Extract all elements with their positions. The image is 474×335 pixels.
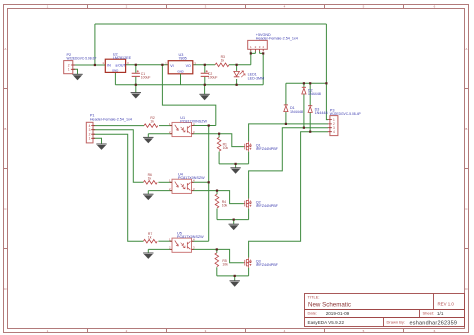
resistor R2 1k (144, 116, 158, 128)
wire LED1 column (236, 65, 238, 85)
regulator U3 7805 (165, 53, 196, 74)
svg-text:100uF: 100uF (141, 75, 151, 79)
resistor R1 10k (217, 137, 228, 151)
svg-text:PC817X0NSZW: PC817X0NSZW (177, 235, 204, 239)
svg-text:1k: 1k (148, 177, 152, 181)
node GND junction at LED1 bottom (236, 84, 238, 86)
wire diode cathode rail (286, 82, 327, 84)
wire ch2 source return and ground (217, 209, 249, 225)
wire D2 stems (303, 83, 305, 127)
svg-text:LM7812EE: LM7812EE (113, 56, 132, 60)
node junction U1 pin4 to collector rail (208, 124, 210, 126)
svg-text:1N4448: 1N4448 (290, 110, 303, 114)
ground symbols (72, 74, 241, 286)
svg-text:Drawn By:: Drawn By: (387, 319, 405, 324)
node +12V junction at C1 top (135, 64, 137, 66)
wire top +12V loop across sheet (95, 23, 327, 25)
wire +5V riser to header (251, 51, 256, 65)
svg-text:1: 1 (102, 61, 104, 65)
wire +12V tap to opto collector rail (162, 65, 215, 126)
svg-text:Header-Female-2.54_1x4: Header-Female-2.54_1x4 (90, 117, 132, 121)
svg-text:1N4448: 1N4448 (315, 111, 328, 115)
wire U1 pin2 to ground (148, 134, 172, 138)
svg-text:Date:: Date: (308, 311, 318, 316)
wire U4 pin3 to Q2 gate (192, 191, 244, 204)
wire Q2 drain row to P3 pin3 (249, 128, 328, 199)
node junction U4 pin3 / R4 (216, 190, 218, 192)
wire U5 pin3 to Q3 gate (192, 249, 244, 262)
wire C2 ground stem (204, 85, 206, 95)
svg-text:B: B (4, 127, 6, 131)
connector P1 Header-Female-2.54_1x4 (86, 114, 132, 143)
svg-text:WJ2EDGVC-5.08-2P: WJ2EDGVC-5.08-2P (67, 56, 97, 60)
ground (ch1 return) (230, 168, 240, 174)
svg-text:10k: 10k (222, 262, 228, 266)
node junction D1 anode / Q1 drain row (285, 123, 287, 125)
ground (P2) (72, 74, 82, 80)
wire U4 pin2 to ground (148, 191, 172, 195)
node junction ch2 source return ground (233, 219, 235, 221)
wire P2 pin1 to ground (73, 69, 78, 74)
wire ch1 source return and ground (219, 152, 249, 168)
wire U5 pin2 to ground (148, 249, 172, 253)
svg-text:TITLE:: TITLE: (308, 295, 320, 300)
header +5V/GND Header-Female-2.54_1x4 (248, 33, 298, 52)
resistor R3 1k (215, 55, 229, 67)
svg-text:3: 3 (89, 128, 91, 132)
node junction U4 pin4 to collector rail (208, 181, 210, 183)
resistor R7 1k (143, 232, 157, 243)
svg-text:D: D (465, 287, 468, 291)
ground (C2) (199, 94, 209, 100)
optocoupler U5 PC817X0NSZW (169, 232, 204, 253)
wire +12V riser to top loop (94, 24, 96, 65)
wire P1 pin1 to ground (93, 138, 102, 144)
node +5V junction at C2 top (204, 64, 206, 66)
svg-text:WJ2EDGVC-5.08-4P: WJ2EDGVC-5.08-4P (330, 112, 362, 116)
resistor R6 1k (143, 173, 157, 184)
node GND junction at C2 bottom (204, 84, 206, 86)
ground (C1) (131, 93, 141, 99)
svg-text:1k: 1k (148, 235, 152, 239)
node junction U1 pin3 / R1 (218, 133, 220, 135)
wire D3 stems (309, 83, 311, 131)
ground (ch3 return) (230, 281, 240, 287)
node junction D3 cathode / VIN rail (309, 82, 311, 84)
transistor Q2 IRFZ44NPBF (244, 199, 279, 209)
svg-text:100uF: 100uF (208, 75, 218, 79)
ground (U1 cathode) (143, 137, 153, 143)
node +5V junction at LED1 top (236, 64, 238, 66)
wire R3 to +5V corner (229, 64, 251, 66)
svg-text:1k: 1k (221, 58, 225, 62)
transistor Q1 IRFZ44NPBF (244, 142, 279, 152)
svg-text:eshandhar262359: eshandhar262359 (410, 320, 458, 326)
node junction D3 anode / Q3 drain row (309, 131, 311, 133)
node GND junction at C1 bottom (135, 84, 137, 86)
connector P3 WJ2EDGVC-5.08-4P (328, 109, 362, 136)
svg-text:GND: GND (112, 68, 118, 72)
wire R4 bottom to return (216, 191, 218, 220)
svg-text:C: C (4, 207, 7, 211)
svg-text:1N4448: 1N4448 (308, 92, 321, 96)
optocoupler U1 PC817X0NSZW (169, 116, 207, 137)
connector P2 WJ2EDGVC-5.08-2P (64, 53, 97, 74)
svg-text:GND: GND (177, 70, 183, 74)
wire ground bus (115, 84, 263, 86)
svg-text:B: B (465, 127, 467, 131)
ground (P1 pin1) (96, 144, 106, 150)
resistor R5 10k (215, 253, 228, 267)
svg-text:1: 1 (89, 137, 91, 141)
node junction ch3 source return ground (234, 275, 236, 277)
svg-text:PC817X0NSZW: PC817X0NSZW (180, 119, 207, 123)
svg-text:VI: VI (170, 64, 173, 68)
svg-text:IRFZ44NPBF: IRFZ44NPBF (256, 147, 279, 151)
regulator U2 LM7812 (102, 53, 131, 73)
svg-text:10k: 10k (223, 146, 229, 150)
wire R2 to U1 pin1 (159, 125, 172, 127)
node junction D2 cathode / VIN rail (303, 82, 305, 84)
wire C1 ground stem (135, 85, 137, 93)
node +5V junction at header pins 1-2 (250, 52, 252, 54)
wire U2 OUT to U3 VI (+12V node) (126, 64, 169, 66)
wire U3 VO to R3 (193, 64, 215, 66)
wire U2 GND drop (114, 72, 116, 84)
svg-text:A: A (465, 47, 467, 51)
svg-text:IN: IN (107, 64, 111, 68)
wire collector rail down to U4/U5 pin4 (208, 126, 210, 242)
node VIN junction at P2/U2 input (94, 64, 96, 66)
svg-text:PC817X0NSZW: PC817X0NSZW (178, 176, 205, 180)
wire R5 bottom to return (216, 249, 218, 276)
svg-text:New Schematic: New Schematic (308, 301, 351, 308)
wire U1 pin4 to +12V feed (192, 125, 216, 127)
svg-text:C: C (465, 207, 468, 211)
svg-text:4: 4 (333, 130, 335, 134)
wire U1 pin3 to Q1 gate (192, 134, 244, 147)
diode D3 1N4448 (308, 106, 327, 115)
diode D1 1N4448 (284, 105, 303, 114)
transistor Q3 IRFZ44NPBF (244, 258, 279, 268)
svg-text:1: 1 (68, 68, 70, 72)
svg-text:REV 1.0: REV 1.0 (438, 301, 455, 306)
wire P1 pin2 down to R7 (93, 134, 143, 241)
node GND junction at header pins 3-4 (262, 52, 264, 54)
ground (U4 cathode) (143, 194, 153, 200)
svg-text:7805: 7805 (179, 57, 187, 61)
wire C2 column (204, 65, 206, 85)
LED1 LED-3MM (234, 71, 264, 80)
svg-text:VO: VO (186, 64, 191, 68)
ground (ch2 return) (229, 224, 239, 230)
svg-text:D: D (4, 287, 7, 291)
wire P1 pin3 down to R6 (93, 130, 143, 183)
svg-text:IRFZ44NPBF: IRFZ44NPBF (256, 263, 279, 267)
node junction D2 anode / Q2 drain row (303, 127, 305, 129)
wire U3 GND drop (180, 74, 182, 85)
wire D1 stems (285, 83, 287, 124)
svg-text:IRFZ44NPBF: IRFZ44NPBF (256, 204, 279, 208)
svg-text:Sheet:: Sheet: (423, 311, 435, 316)
svg-text:1k: 1k (150, 119, 154, 123)
wire R6 to U4 pin1 (158, 181, 172, 183)
svg-text:Header-Female-2.54_1x4: Header-Female-2.54_1x4 (256, 37, 298, 41)
svg-text:LED-3MM: LED-3MM (248, 76, 265, 80)
node +12V junction at opto-rail tap (161, 64, 163, 66)
node junction VIN rail / P3 pin1 drop (325, 82, 327, 84)
ground (U5 cathode) (143, 253, 153, 259)
svg-text:1/1: 1/1 (437, 311, 444, 316)
node junction U5 pin3 / R5 (216, 248, 218, 250)
capacitor C2 100uF (201, 70, 218, 79)
wire U5 pin4 to rail (192, 240, 209, 242)
capacitor C1 100uF (132, 70, 151, 79)
wire header GND column to ground bus (260, 51, 264, 85)
svg-text:10k: 10k (222, 203, 228, 207)
svg-text:◎OUT: ◎OUT (115, 64, 127, 68)
diode D2 1N4448 (302, 87, 321, 96)
svg-text:2019-01-09: 2019-01-09 (326, 311, 350, 316)
wire Q1 drain row to P3 pin2 (249, 124, 328, 142)
wire P1 pin4 to R2 (93, 125, 144, 127)
svg-text:A: A (4, 47, 6, 51)
wire R7 to U5 pin1 (158, 240, 172, 242)
resistor R4 10k (215, 194, 227, 208)
wire C1 column (135, 65, 137, 85)
wire U4 pin4 to rail (192, 181, 209, 183)
wire Q3 drain row to P3 pin4 (249, 132, 328, 258)
optocoupler U4 PC817X0NSZW (169, 173, 205, 194)
svg-text:EasyEDA V5.9.22: EasyEDA V5.9.22 (308, 320, 345, 325)
node junction ch1 source return ground (235, 163, 237, 165)
wire +12V drop to P3 pin 1 (326, 24, 328, 120)
wire R1 bottom to return (218, 134, 220, 164)
wire ch3 source return and ground (217, 268, 249, 281)
wire P2 pin2 to U2 IN (+12V in) (73, 64, 106, 66)
title block (305, 294, 465, 327)
